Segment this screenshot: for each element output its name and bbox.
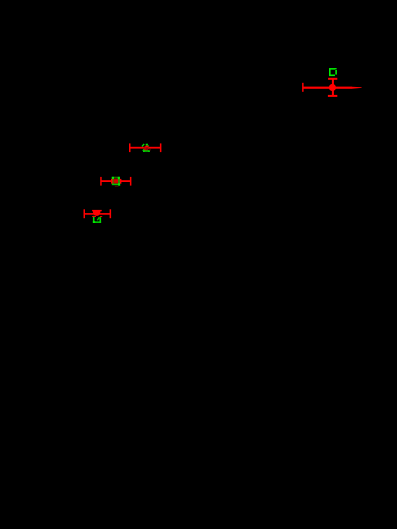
wire horizontal segment of net N1 — [302, 83, 362, 92]
wire vertical segment of net N1 with end caps — [328, 78, 337, 97]
wire of component R2 with end caps — [100, 177, 131, 186]
component R3 lower cap dashes — [92, 215, 102, 218]
port square P1 (green pin marker above net N1) — [330, 68, 337, 76]
component R3 symbol body (junction blob with caps) — [92, 210, 102, 216]
component R1 symbol body — [142, 144, 151, 152]
component R3 port square (green, below wire) — [93, 216, 101, 223]
component R2 symbol body — [111, 177, 121, 187]
wire of component R1 with end caps — [129, 143, 161, 152]
junction dot on net N1 — [329, 84, 336, 91]
wire of component R3 with end caps — [84, 209, 112, 218]
